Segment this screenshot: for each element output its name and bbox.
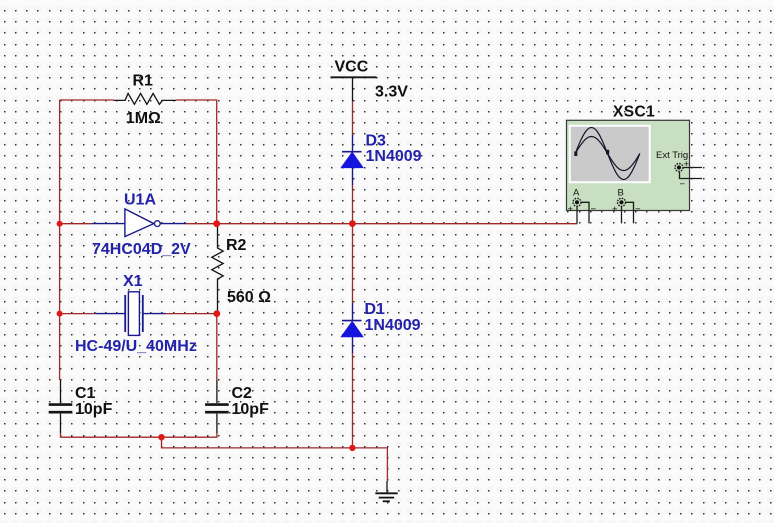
wire D3 to D1 xyxy=(352,185,354,304)
crystal X1 xyxy=(95,292,166,336)
svg-text:3.3V: 3.3V xyxy=(375,84,408,101)
scope Ext Trig terminal xyxy=(675,159,702,190)
wire R1 top left segment xyxy=(60,99,114,101)
junction node bottom D1 xyxy=(349,445,355,451)
junction node crystal right xyxy=(213,310,220,317)
wire R1 top right segment xyxy=(176,100,217,224)
svg-text:+: + xyxy=(684,159,690,170)
svg-text:R1: R1 xyxy=(133,73,154,90)
oscilloscope XSC1 xyxy=(567,120,690,210)
wire left loop vertical xyxy=(59,100,61,380)
wire bottom branch to ground xyxy=(162,437,388,481)
ground xyxy=(375,481,397,501)
junction node inverter input xyxy=(57,221,63,227)
svg-text:C2: C2 xyxy=(232,385,253,402)
scope terminal A xyxy=(568,188,597,224)
svg-text:1MΩ: 1MΩ xyxy=(126,110,161,127)
wire VCC to D3 xyxy=(352,101,354,136)
scope terminal B xyxy=(612,188,641,224)
svg-text:1N4009: 1N4009 xyxy=(366,148,422,165)
svg-text:HC-49/U_40MHz: HC-49/U_40MHz xyxy=(75,338,197,355)
svg-text:10pF: 10pF xyxy=(232,401,270,418)
svg-text:XSC1: XSC1 xyxy=(613,104,655,121)
diode D1 xyxy=(341,303,363,353)
svg-text:−: − xyxy=(680,179,686,190)
wire inverter input xyxy=(60,223,92,225)
junction node bottom left xyxy=(158,434,164,440)
svg-text:10pF: 10pF xyxy=(75,401,113,418)
svg-text:C1: C1 xyxy=(75,385,96,402)
svg-text:74HC04D_2V: 74HC04D_2V xyxy=(92,241,191,258)
svg-text:X1: X1 xyxy=(123,273,143,290)
junction node center cross xyxy=(349,220,356,227)
wire main output horizontal xyxy=(186,223,578,225)
wire bottom C1 to C2 xyxy=(61,433,217,437)
wire right vertical to C2 xyxy=(216,314,218,380)
junction node inverter output xyxy=(213,220,220,227)
wire crystal left xyxy=(60,313,95,315)
svg-text:U1A: U1A xyxy=(124,192,156,209)
svg-text:R2: R2 xyxy=(226,237,247,254)
svg-text:D1: D1 xyxy=(365,301,386,318)
power VCC symbol xyxy=(331,77,377,101)
svg-text:+: + xyxy=(612,204,618,215)
resistor R1 xyxy=(114,93,177,104)
svg-text:−: − xyxy=(635,204,641,215)
svg-text:560 Ω: 560 Ω xyxy=(227,289,271,306)
svg-text:1N4009: 1N4009 xyxy=(365,317,421,334)
svg-text:VCC: VCC xyxy=(335,59,369,76)
wire D1 to bottom xyxy=(352,353,354,448)
svg-text:D3: D3 xyxy=(366,133,387,150)
svg-text:−: − xyxy=(591,204,597,215)
svg-text:+: + xyxy=(568,204,574,215)
wire crystal right xyxy=(166,313,217,315)
op-amp U1A inverter symbol xyxy=(92,209,186,237)
junction node crystal left xyxy=(57,311,63,317)
svg-text:A: A xyxy=(573,188,580,199)
resistor R2 xyxy=(212,226,223,312)
svg-text:B: B xyxy=(618,188,624,199)
capacitor C2 xyxy=(205,380,229,433)
capacitor C1 xyxy=(49,380,73,433)
diode D3 xyxy=(341,135,363,185)
